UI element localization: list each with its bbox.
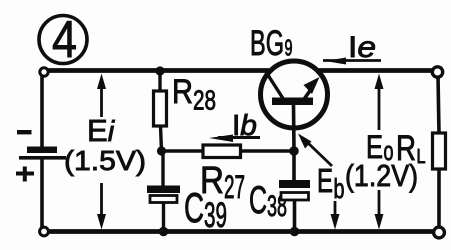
svg-text:o: o <box>384 136 394 166</box>
capacitor C38 bottom lead <box>293 200 297 232</box>
svg-text:39: 39 <box>204 196 227 235</box>
svg-text:E: E <box>366 129 383 165</box>
terminal top-right <box>432 67 442 77</box>
svg-text:Ie: Ie <box>348 31 376 64</box>
transistor Q1 base lead <box>292 105 296 151</box>
svg-text:E: E <box>317 162 333 199</box>
resistor R27 <box>203 145 241 158</box>
wire left branch lower <box>40 159 44 227</box>
resistor R28 bottom lead <box>161 126 162 151</box>
terminal top-left <box>40 68 48 76</box>
svg-text:28: 28 <box>193 85 216 116</box>
svg-text:Ei: Ei <box>87 113 116 148</box>
figure number badge 4 <box>39 11 87 69</box>
capacitor C39 bottom plate <box>150 196 177 203</box>
capacitor C39 top plate <box>147 186 180 194</box>
battery B1 short thick plate <box>27 147 57 154</box>
node B junction left middle <box>157 146 166 155</box>
wire R27 right lead <box>241 149 295 152</box>
Ei dimension arrow up <box>97 74 106 118</box>
capacitor C38 top lead <box>292 151 296 181</box>
capacitor C39 top lead <box>161 151 164 186</box>
top wire left segment <box>47 68 269 73</box>
svg-text:C: C <box>184 184 204 231</box>
Eb dimension arrow down <box>331 201 340 230</box>
current arrow Ie <box>323 58 381 65</box>
transistor Q1 base bar <box>272 98 313 106</box>
terminal bottom-right <box>434 227 445 238</box>
current arrow Ib <box>209 135 260 143</box>
Ei dimension arrow down <box>97 183 106 230</box>
resistor RL <box>433 133 446 169</box>
transistor Q1 collector line <box>266 72 284 100</box>
svg-text:C: C <box>249 179 267 222</box>
svg-text:4: 4 <box>52 11 77 69</box>
wire left branch upper <box>40 76 44 147</box>
node D junction base <box>289 146 299 156</box>
battery B1 long thin plate <box>19 156 66 160</box>
resistor R28 top lead <box>158 71 161 91</box>
svg-text:BG: BG <box>250 24 284 63</box>
terminal bottom-left <box>40 227 49 236</box>
node C38-ground junction <box>290 227 300 237</box>
Eo dimension arrow down <box>375 190 384 230</box>
bottom wire <box>47 229 434 234</box>
transistor Q1 circle <box>261 61 328 128</box>
battery minus sign <box>17 130 32 134</box>
capacitor C39 bottom lead <box>162 203 165 232</box>
svg-text:b: b <box>334 173 345 204</box>
svg-text:R: R <box>396 129 416 168</box>
svg-text:27: 27 <box>224 169 245 205</box>
wire R27 left lead <box>162 149 204 152</box>
annotation arrow Eb pointer <box>298 134 332 167</box>
top wire right segment <box>319 68 432 73</box>
svg-text:L: L <box>417 146 426 168</box>
node C39-ground junction <box>159 227 169 237</box>
Eo dimension arrow up <box>375 74 384 131</box>
svg-text:Ib: Ib <box>232 110 257 142</box>
capacitor C38 bottom plate <box>281 193 309 201</box>
node A junction top <box>155 66 164 75</box>
svg-text:R: R <box>172 73 193 111</box>
capacitor C38 top plate <box>279 180 310 188</box>
battery plus sign <box>16 167 34 182</box>
svg-text:(1.5V): (1.5V) <box>64 145 146 176</box>
transistor Q1 emitter line with arrow <box>302 77 320 102</box>
resistor RL top lead <box>438 76 439 133</box>
resistor RL bottom lead <box>437 169 441 227</box>
svg-text:9: 9 <box>285 35 293 61</box>
resistor R28 <box>154 91 167 126</box>
